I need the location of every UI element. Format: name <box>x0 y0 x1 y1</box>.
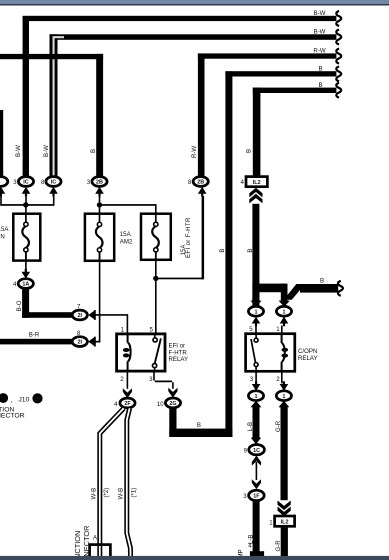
wire B vertical to connector 2B-3 <box>96 54 103 177</box>
svg-text:,: , <box>11 397 13 404</box>
svg-text:IL2: IL2 <box>281 519 289 525</box>
EFI relay box <box>117 334 165 371</box>
svg-text:2B: 2B <box>197 180 204 186</box>
thick arrow into C/OPN pin 1 oval <box>279 292 290 307</box>
svg-text:B: B <box>197 422 201 429</box>
pin arrow below 2B-8 <box>198 187 207 197</box>
wire R-W horizontal (top wire 3) <box>198 53 337 58</box>
lead C/OPN pin 3 down <box>255 371 257 383</box>
junction bus left (feeds fuse IGN) <box>1 204 55 206</box>
svg-text:RELAY: RELAY <box>298 355 318 362</box>
svg-text:8: 8 <box>41 179 45 186</box>
left edge wire to edge connector <box>0 110 3 177</box>
svg-text:C/OPN: C/OPN <box>298 348 317 355</box>
lead from junction bus into fuse EFI <box>155 204 157 222</box>
wire B-O from 1A down <box>22 287 29 318</box>
wire B-W vertical to connector IC-3 <box>23 16 29 178</box>
svg-text:1: 1 <box>269 519 273 526</box>
lead from IC-8 down to junction bus <box>53 196 55 206</box>
svg-text:AM2: AM2 <box>120 238 133 245</box>
connector 2F pin 4 oval <box>120 398 135 408</box>
connector IL2 pin 4 box <box>246 177 267 187</box>
svg-text:3: 3 <box>243 493 247 500</box>
pin arrow right of 2I-8 <box>88 337 96 347</box>
wire W-B inside junction box <box>97 546 102 560</box>
svg-text:B: B <box>245 149 252 153</box>
svg-text:8: 8 <box>188 179 192 186</box>
wire B vertical to connector IL2-4 <box>253 88 261 178</box>
connector 2B pin 8 oval <box>193 177 208 187</box>
label EFI or F-HTR RELAY <box>169 343 189 364</box>
svg-text:3: 3 <box>250 376 254 383</box>
svg-text:CONNECTOR: CONNECTOR <box>82 526 91 560</box>
svg-text:EFI or F-HTR: EFI or F-HTR <box>185 217 192 258</box>
junction connector box bottom left <box>90 545 111 560</box>
connector 1C pin 9 oval <box>249 445 265 455</box>
svg-text:B-W: B-W <box>314 10 326 17</box>
wire L-B from C/OPN pin 3 down <box>253 408 260 433</box>
svg-text:B: B <box>318 82 322 89</box>
pin arrow below 1C <box>252 456 261 466</box>
lead from IC-3 to junction <box>25 196 27 206</box>
svg-text:IC: IC <box>51 180 56 186</box>
svg-text:2B: 2B <box>96 180 103 186</box>
C/OPN pin 5 upper oval <box>248 306 263 316</box>
lead EFI relay pin 2 down <box>127 371 129 388</box>
svg-text:7: 7 <box>77 303 81 310</box>
lead from fuse IGN to connector 1A <box>25 252 27 272</box>
label 15A EFI or F-HTR (rotated) <box>180 217 192 258</box>
svg-text:R-W: R-W <box>191 146 198 158</box>
note circled B <box>32 393 42 403</box>
EFI relay switch <box>153 335 161 371</box>
svg-text:1C: 1C <box>253 448 260 454</box>
thick arrow into C/OPN pin 5 oval <box>250 292 261 307</box>
svg-text:2G: 2G <box>169 401 176 407</box>
svg-text:G-R: G-R <box>275 420 282 432</box>
lead from 2B-8 down <box>202 196 205 279</box>
C/OPN relay coil <box>282 335 289 371</box>
svg-text:1: 1 <box>282 394 285 400</box>
lead from junction into fuse IGN <box>25 205 27 223</box>
svg-text:CONNECTOR: CONNECTOR <box>0 413 25 420</box>
junction dot at fuse IGN feed <box>23 202 28 207</box>
svg-text:4: 4 <box>13 281 17 288</box>
wire B horizontal (top wire 4) <box>225 71 336 76</box>
C/OPN relay box <box>246 334 295 372</box>
svg-text:1: 1 <box>121 326 125 333</box>
connector 1F pin 3 oval <box>249 490 265 500</box>
pin arrow below IC-3 <box>22 187 31 197</box>
thick arrow below pin2 oval <box>279 401 290 409</box>
C/OPN relay switch <box>251 335 258 371</box>
svg-text:J10: J10 <box>18 397 29 404</box>
wire B-W horizontal (top wire 1) <box>23 16 337 21</box>
double chevron into IL2-1 <box>278 501 291 517</box>
svg-text:2I: 2I <box>78 313 83 319</box>
continuation mark wire 2 <box>336 30 341 45</box>
svg-text:B: B <box>320 278 324 285</box>
svg-text:IL2: IL2 <box>253 180 261 186</box>
wire B horizontal (top wire 5) <box>253 88 337 93</box>
lead from 2B-8 left to fuse EFI output <box>156 278 204 280</box>
svg-text:B-W: B-W <box>314 29 326 36</box>
fuse 15A IGN <box>13 213 40 261</box>
svg-text:1: 1 <box>255 309 258 315</box>
top toolbar strip <box>0 0 389 4</box>
continuation mark wire 5 <box>336 83 341 98</box>
arrow into pin3 lower oval <box>252 381 261 391</box>
svg-text:G-R: G-R <box>275 540 282 552</box>
svg-text:B: B <box>35 396 40 403</box>
wire B below IL2-4 down to C/OPN junction <box>252 204 259 307</box>
connector 2B pin 3 oval <box>92 177 107 187</box>
lead C/OPN pin 2 down <box>281 371 283 383</box>
lead from 2I-7 right then down to relay pin 1 <box>95 314 129 334</box>
svg-text:3: 3 <box>87 179 91 186</box>
svg-text:4: 4 <box>241 179 245 186</box>
connector IL2 pin 1 box <box>275 516 295 526</box>
svg-text:IC: IC <box>23 180 28 186</box>
svg-text:W-B: W-B <box>90 488 97 500</box>
wire B from 2G down, right, up to wire 4 <box>169 407 176 438</box>
svg-text:B: B <box>219 249 226 253</box>
pin arrow below pin1 oval <box>280 317 289 327</box>
drop into C/OPN pin 1 oval <box>281 284 288 303</box>
svg-text:1: 1 <box>255 394 258 400</box>
svg-text:(*2): (*2) <box>103 488 110 498</box>
continuation mark wire 1 <box>336 11 341 26</box>
svg-text:2: 2 <box>276 376 280 383</box>
wire B from right with diagonal <box>284 284 339 300</box>
connector IC pin 3 oval <box>18 177 33 187</box>
wire R-W vertical to connector 2B-8 <box>198 54 205 177</box>
wire B-W hollow horizontal (top wire 2) <box>50 34 337 40</box>
svg-text:8: 8 <box>77 330 81 337</box>
svg-text:1F: 1F <box>253 494 260 500</box>
bottom toolbar strip <box>0 556 389 560</box>
C/OPN pin 1 upper oval <box>276 306 291 316</box>
wire B-O horizontal to 2I-7 <box>22 312 72 318</box>
junction dot at fuse AM2 feed <box>97 202 102 207</box>
wire G-R from C/OPN pin 2 down <box>281 408 288 501</box>
continuation mark bottom B wire <box>338 281 343 296</box>
svg-text:B: B <box>247 249 254 253</box>
wire B-W hollow vertical to connector IC-8 <box>50 34 58 177</box>
lead pin5 oval to relay <box>255 326 257 334</box>
svg-text:B: B <box>318 65 322 72</box>
lead from 2I-8 right to fuse AM2 output <box>95 341 101 343</box>
svg-text:B: B <box>90 149 97 153</box>
svg-text:B-O: B-O <box>16 300 23 311</box>
wire W-B (*2) hollow from 2F to junction box <box>100 408 124 546</box>
svg-text:IGN: IGN <box>0 234 5 241</box>
svg-text:3: 3 <box>149 376 153 383</box>
svg-text:L-B: L-B <box>247 422 254 431</box>
EFI relay coil <box>123 335 131 371</box>
svg-text:9: 9 <box>244 447 248 454</box>
thick arrow below pin3 oval <box>251 401 262 409</box>
lead pin1 oval to relay <box>281 326 283 334</box>
svg-text:A: A <box>1 395 6 402</box>
svg-text:5: 5 <box>249 326 253 333</box>
svg-text:1: 1 <box>283 309 286 315</box>
connector 2I pin 8 oval <box>72 337 87 347</box>
fishtail arrow into 1F <box>252 479 261 489</box>
svg-text:15A: 15A <box>0 226 9 233</box>
junction bus right (feeds fuse EFI) <box>100 204 157 206</box>
svg-text:JUNCTION: JUNCTION <box>73 531 82 560</box>
svg-text:B-W: B-W <box>15 145 22 157</box>
hollow core of wire 2 vertical <box>53 36 65 175</box>
connector 2I pin 7 oval <box>72 310 87 320</box>
svg-text:4: 4 <box>114 401 118 408</box>
svg-text:2: 2 <box>120 376 124 383</box>
lead EFI relay pin 3 down and right to 2G <box>153 371 174 388</box>
double chevron below IL2-4 <box>249 188 262 204</box>
pin arrow right of 2I-7 <box>88 310 96 320</box>
lead from fuse AM2 down to 2I-8 line <box>99 252 101 342</box>
svg-text:15A: 15A <box>120 231 132 238</box>
left edge connector pin arrow <box>0 187 5 197</box>
svg-text:5: 5 <box>150 326 154 333</box>
wire L-B below 1F <box>253 501 260 552</box>
wire B horizontal to fuse row (left, feeds 2B-3) <box>0 54 103 59</box>
pin arrow below 2B-3 <box>95 187 104 197</box>
wire B-R from left edge <box>0 339 72 345</box>
continuation mark wire 3 <box>336 49 341 64</box>
svg-text:3: 3 <box>13 179 17 186</box>
lead from fuse EFI down to relay pin 5 <box>155 252 157 334</box>
pin arrow above connector 1A <box>22 269 31 279</box>
svg-text:W-B: W-B <box>117 488 124 500</box>
connector 2G pin 10 oval <box>165 398 180 408</box>
continuation mark wire 4 <box>336 67 341 82</box>
wire G-R below IL2-1 <box>281 526 288 556</box>
svg-text:1A: 1A <box>22 282 29 288</box>
label C/OPN RELAY <box>298 348 318 362</box>
note circled A <box>0 393 8 403</box>
svg-text:R-W: R-W <box>313 48 325 55</box>
arrow into pin2 lower oval <box>280 381 289 391</box>
fuse 15A EFI or F-HTR <box>141 213 171 261</box>
svg-text:RELAY: RELAY <box>169 356 189 363</box>
left edge connector lead down <box>0 196 2 206</box>
pin arrow below pin5 oval <box>252 317 261 327</box>
thin lead 1C to 1F <box>256 462 258 480</box>
label 15A AM2 <box>120 231 133 245</box>
fishtail arrow into 2G <box>168 388 177 398</box>
svg-text:A: A <box>93 535 98 542</box>
svg-text:10: 10 <box>157 401 164 408</box>
fishtail arrow into 2F <box>123 388 132 398</box>
svg-text:B-W: B-W <box>43 145 50 157</box>
svg-text:(*1): (*1) <box>130 488 137 498</box>
C/OPN pin 3 lower oval <box>248 391 263 401</box>
fuel pump connector block <box>250 551 264 557</box>
junction dot fuse EFI output <box>153 276 158 281</box>
wire B vertical long (wire 4) <box>225 71 232 437</box>
pin arrow below IC-8 <box>49 187 58 197</box>
connector IC pin 8 oval <box>46 177 61 187</box>
svg-text:1: 1 <box>276 326 280 333</box>
C/OPN pin 2 lower oval <box>276 391 291 401</box>
svg-text:2I: 2I <box>78 340 83 346</box>
C/OPN junction: branch from wire B to relay pin 1 feed <box>252 284 285 293</box>
svg-text:2F: 2F <box>124 401 131 407</box>
connector 1A pin 4 oval <box>18 279 33 289</box>
lead from 2B-3 through junction into fuse AM2 <box>99 196 101 223</box>
label 15A IGN <box>0 226 9 241</box>
wire W-B (*1) hollow from 2F to bottom <box>127 408 131 560</box>
fuse 15A AM2 <box>85 213 114 261</box>
svg-text:B-R: B-R <box>29 331 40 338</box>
thick arrow into 1C <box>251 438 261 445</box>
left edge connector oval (cut) <box>0 177 8 187</box>
